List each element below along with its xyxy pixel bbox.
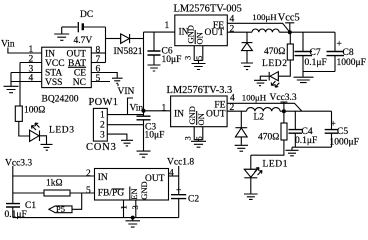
- svg-text:470Ω: 470Ω: [258, 133, 279, 143]
- svg-text:5: 5: [194, 136, 204, 140]
- svg-text:Vcc3.3: Vcc3.3: [270, 93, 297, 103]
- svg-text:1000μF: 1000μF: [330, 138, 359, 148]
- svg-text:ON: ON: [196, 113, 206, 125]
- svg-text:4.7V: 4.7V: [74, 36, 93, 46]
- svg-text:Vcc5: Vcc5: [278, 12, 300, 23]
- svg-text:100μH: 100μH: [252, 12, 277, 22]
- svg-text:10μF: 10μF: [145, 131, 165, 141]
- svg-text:LED3: LED3: [49, 126, 75, 136]
- svg-text:LED1: LED1: [263, 160, 289, 170]
- svg-text:1: 1: [162, 104, 167, 114]
- svg-text:L2: L2: [254, 113, 265, 123]
- svg-text:2: 2: [86, 169, 91, 179]
- svg-text:7: 7: [96, 55, 101, 65]
- svg-text:3: 3: [100, 131, 105, 141]
- svg-text:P5: P5: [56, 204, 65, 214]
- svg-text:NC: NC: [73, 78, 86, 88]
- svg-text:BQ24200: BQ24200: [42, 95, 79, 105]
- svg-text:5: 5: [194, 56, 204, 60]
- svg-text:IN5821: IN5821: [114, 47, 143, 57]
- svg-text:Vcc1.8: Vcc1.8: [167, 158, 194, 168]
- svg-text:STA: STA: [45, 69, 62, 79]
- svg-text:1kΩ: 1kΩ: [46, 179, 63, 189]
- svg-text:+: +: [331, 120, 336, 130]
- svg-text:POW1: POW1: [89, 97, 119, 108]
- svg-text:0.1μF: 0.1μF: [5, 210, 27, 220]
- svg-text:GND: GND: [139, 181, 149, 199]
- svg-text:1: 1: [118, 205, 128, 209]
- svg-text:2: 2: [230, 103, 235, 113]
- svg-text:FB/PG: FB/PG: [98, 189, 125, 199]
- svg-text:C8: C8: [343, 48, 354, 58]
- svg-text:CON3: CON3: [86, 142, 117, 153]
- svg-text:5: 5: [86, 186, 91, 196]
- svg-text:OUT: OUT: [145, 174, 165, 184]
- svg-text:0.1μF: 0.1μF: [295, 136, 317, 146]
- svg-text:10μF: 10μF: [162, 55, 182, 65]
- svg-text:C2: C2: [188, 195, 199, 205]
- svg-text:4: 4: [230, 93, 235, 103]
- svg-text:2: 2: [29, 55, 34, 65]
- svg-text:8: 8: [96, 46, 101, 56]
- svg-text:IN: IN: [174, 110, 184, 120]
- svg-text:1: 1: [165, 21, 170, 31]
- svg-text:2: 2: [100, 121, 105, 131]
- svg-text:LM2576TV-005: LM2576TV-005: [174, 4, 242, 15]
- svg-text:1: 1: [29, 45, 34, 55]
- svg-text:Vin: Vin: [130, 104, 144, 114]
- svg-text:VCC: VCC: [45, 59, 65, 69]
- svg-text:BAT: BAT: [68, 59, 86, 69]
- svg-text:LM2576TV-3.3: LM2576TV-3.3: [167, 85, 233, 96]
- svg-text:+: +: [337, 40, 342, 50]
- svg-text:Vin: Vin: [1, 40, 15, 50]
- svg-text:C7: C7: [310, 48, 321, 58]
- svg-text:Vcc3.3: Vcc3.3: [5, 159, 32, 169]
- svg-text:CE: CE: [74, 69, 86, 79]
- svg-text:OUT: OUT: [206, 110, 226, 120]
- svg-text:LED2: LED2: [262, 59, 288, 69]
- svg-text:OUT: OUT: [204, 28, 224, 38]
- svg-text:4: 4: [29, 74, 34, 84]
- svg-text:ON: ON: [194, 32, 204, 44]
- svg-text:3: 3: [183, 56, 193, 60]
- svg-text:EN: EN: [129, 188, 139, 199]
- svg-text:IN: IN: [98, 173, 108, 183]
- svg-text:1: 1: [100, 111, 105, 121]
- svg-text:VIN: VIN: [118, 87, 135, 97]
- svg-text:2: 2: [230, 25, 235, 35]
- svg-text:C5: C5: [337, 127, 348, 137]
- svg-text:VSS: VSS: [45, 78, 62, 88]
- svg-text:470Ω: 470Ω: [264, 47, 285, 57]
- svg-text:0.1μF: 0.1μF: [305, 58, 327, 68]
- svg-text:3: 3: [130, 205, 140, 209]
- svg-text:1000μF: 1000μF: [337, 58, 366, 68]
- svg-text:5: 5: [96, 74, 101, 84]
- svg-text:100μH: 100μH: [242, 92, 267, 102]
- svg-text:4: 4: [230, 15, 235, 25]
- svg-text:6: 6: [96, 65, 101, 75]
- svg-text:+: +: [176, 186, 181, 196]
- svg-text:100Ω: 100Ω: [24, 106, 45, 116]
- svg-text:4: 4: [169, 168, 174, 178]
- svg-text:DC: DC: [80, 10, 93, 20]
- svg-text:3: 3: [183, 136, 193, 140]
